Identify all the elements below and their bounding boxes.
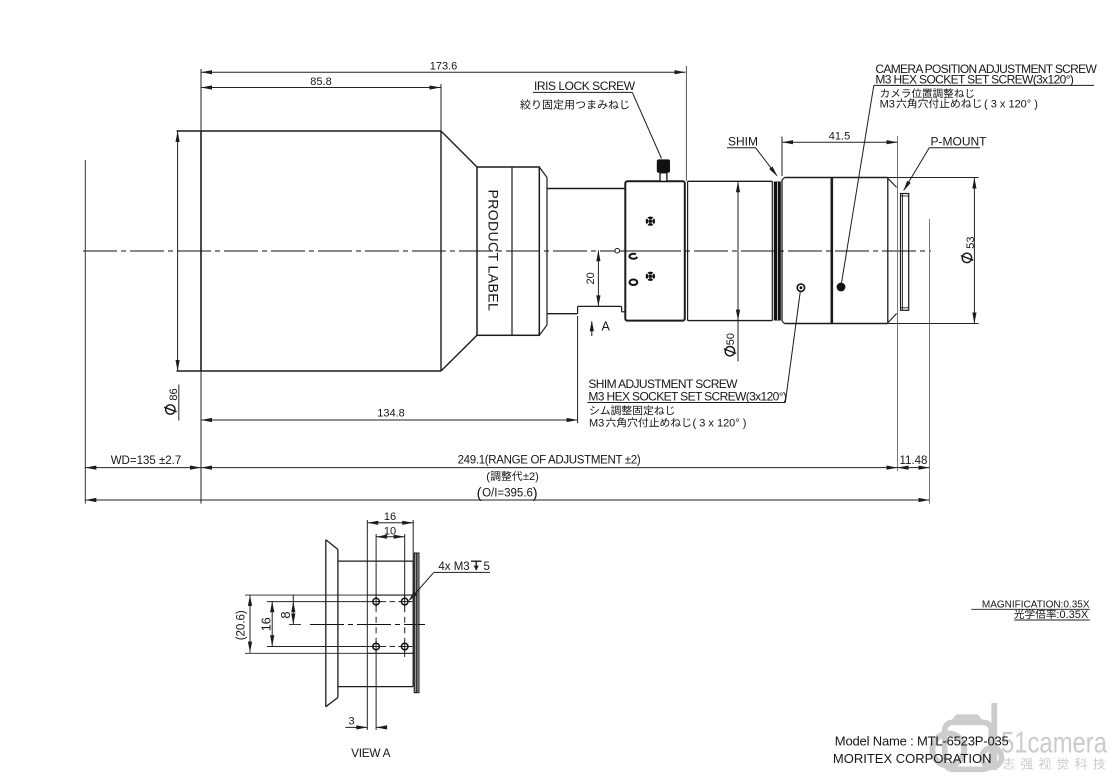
svg-text:4x M3: 4x M3 xyxy=(438,561,469,573)
svg-text:IRIS LOCK SCREW: IRIS LOCK SCREW xyxy=(534,79,636,93)
svg-text:20: 20 xyxy=(585,272,597,284)
svg-text:): ) xyxy=(533,485,538,502)
svg-text:±2): ±2) xyxy=(523,471,539,483)
svg-text:Model Name : MTL-6523P-035: Model Name : MTL-6523P-035 xyxy=(835,733,1009,748)
svg-text:SHIM: SHIM xyxy=(728,135,758,149)
svg-text:51camera: 51camera xyxy=(1001,727,1107,760)
svg-text:M3 HEX SOCKET SET SCREW(3x120°: M3 HEX SOCKET SET SCREW(3x120°) xyxy=(588,389,786,403)
svg-text:50: 50 xyxy=(725,333,737,345)
svg-text:(: ( xyxy=(486,471,490,483)
svg-text:134.8: 134.8 xyxy=(377,408,405,420)
svg-text:A: A xyxy=(602,320,611,334)
svg-text:(: ( xyxy=(477,485,482,502)
svg-text:VIEW A: VIEW A xyxy=(351,746,391,760)
svg-text:WD=135 ±2.7: WD=135 ±2.7 xyxy=(111,455,182,467)
svg-text:41.5: 41.5 xyxy=(829,131,850,143)
svg-text:MORITEX CORPORATION: MORITEX CORPORATION xyxy=(833,751,992,766)
svg-text:3: 3 xyxy=(349,715,355,727)
svg-text:53: 53 xyxy=(965,237,977,249)
svg-text:M3: M3 xyxy=(589,417,604,429)
svg-text:PRODUCT LABEL: PRODUCT LABEL xyxy=(486,190,502,312)
svg-text:173.6: 173.6 xyxy=(430,60,458,72)
svg-text:16: 16 xyxy=(384,511,396,523)
svg-text:( 3 x 120° ): ( 3 x 120° ) xyxy=(984,98,1038,110)
svg-text:10: 10 xyxy=(384,525,396,537)
svg-text:P-MOUNT: P-MOUNT xyxy=(931,135,988,149)
svg-text:( 3 x 120° ): ( 3 x 120° ) xyxy=(693,417,747,429)
svg-text:O/I=395.6: O/I=395.6 xyxy=(482,488,533,500)
svg-text:249.1(RANGE OF ADJUSTMENT ±2): 249.1(RANGE OF ADJUSTMENT ±2) xyxy=(458,455,641,467)
svg-text:11.48: 11.48 xyxy=(900,455,928,467)
svg-text:16: 16 xyxy=(259,617,273,631)
svg-text:8: 8 xyxy=(278,611,293,618)
svg-text:5: 5 xyxy=(484,561,490,573)
svg-text:M3 HEX SOCKET SET SCREW(3x120°: M3 HEX SOCKET SET SCREW(3x120°) xyxy=(875,73,1073,87)
svg-text::0.35X: :0.35X xyxy=(1056,609,1088,621)
svg-text:M3: M3 xyxy=(880,98,895,110)
svg-text:(20.6): (20.6) xyxy=(236,610,248,640)
svg-text:85.8: 85.8 xyxy=(310,76,331,88)
